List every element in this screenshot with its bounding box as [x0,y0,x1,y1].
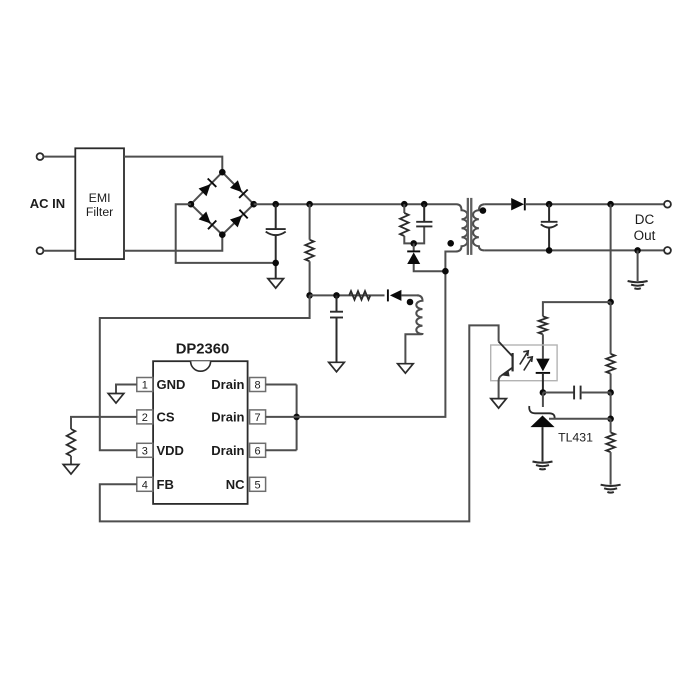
shunt regulator U3 TL431 [529,406,554,419]
diode D5 aux rectifier [390,290,402,301]
transformer secondary polarity dot [480,207,487,214]
wire drain to transformer [266,271,446,417]
node VDD filter cap junction [333,292,340,299]
resistor R1 startup [305,240,314,262]
node AC line input terminal (top) [37,153,44,160]
wire drain bus pin6 [266,449,297,451]
optocoupler phototransistor [511,353,513,371]
optocoupler light arrows [520,352,528,365]
svg-text:NC: NC [226,477,245,492]
svg-text:AC IN: AC IN [30,196,65,211]
node DC out ground junction [634,247,641,254]
wire divider mid [610,393,612,419]
svg-text:8: 8 [255,380,261,392]
capacitor C4 output (polarized) [548,204,550,222]
svg-text:CS: CS [157,409,175,424]
svg-text:VDD: VDD [157,443,184,458]
wire DC out ground stem [637,250,639,281]
diode D7 output rectifier [511,198,524,210]
wire secondary top to output diode [485,203,511,205]
transformer primary polarity dot [447,240,454,247]
node AC neutral input terminal (bottom) [37,247,44,254]
transformer core [467,198,469,255]
svg-text:EMI: EMI [89,191,111,205]
wire CS pin to sense resistor [71,417,137,429]
wire EMI output bottom to bridge AC node [124,235,222,251]
diode D6 snubber clamp [407,250,420,252]
pin 4 box [137,477,153,491]
svg-text:4: 4 [142,479,148,491]
svg-text:5: 5 [255,479,261,491]
wire drain bus pin8 [266,384,297,386]
svg-text:DP2360: DP2360 [176,342,229,358]
wire divider mid upper [610,374,612,393]
wire snubber R upper lead [403,204,405,213]
svg-text:FB: FB [157,477,174,492]
pin 8 box [250,378,266,392]
node snubber RC bottom junction [410,240,417,247]
svg-text:Filter: Filter [86,205,113,219]
svg-text:3: 3 [142,445,148,457]
capacitor C3 snubber [423,204,425,222]
node VDD supply junction [306,292,313,299]
transformer T1 secondary winding [473,204,485,250]
wire EMI output top to bridge AC node [124,157,222,173]
capacitor C2 VDD filter [336,295,338,311]
node drain / snubber junction [442,268,449,275]
resistor R7 current sense [67,429,76,456]
wire snubber R lower lead [404,226,424,243]
resistor R2 VDD series [349,291,370,300]
node bridge negative (left) junction [188,201,195,208]
wire LED cathode to cap [543,392,574,394]
bridge diode D1 (left to top) [199,184,211,196]
wire drain bus vertical [296,385,298,451]
aux winding polarity dot [407,299,414,306]
wire TL431 reference [549,418,611,420]
inductor L1 auxiliary winding [405,295,422,363]
node startup resistor top junction [306,201,313,208]
wire AC bottom input [44,250,76,252]
optocoupler LED [536,359,550,372]
svg-text:1: 1 [142,380,148,392]
bridge diode D3 (left to bottom) [199,212,211,224]
IC notch [191,361,211,371]
wire FB pin to optocoupler collector [100,325,499,521]
wire divider to ground [610,452,612,485]
svg-text:6: 6 [255,445,261,457]
bridge rectifier frame [191,172,254,235]
wire bridge negative return [176,204,276,263]
ground (secondary, DC out) [628,281,648,282]
wire VDD node to DP2360 VDD pin [100,295,310,450]
pin 7 box [250,410,266,424]
bridge diode D4 (bottom to right) [230,215,242,227]
optocoupler U2 package outline [491,345,557,381]
wire cap to divider [581,392,611,394]
ground (CS sense resistor) [63,465,79,475]
node bridge AC bottom junction [219,231,226,238]
node bridge positive (right) junction [250,201,257,208]
node output sense junction [607,201,614,208]
ground (VDD filter cap) [329,362,345,372]
svg-text:TL431: TL431 [558,430,593,444]
resistor R6 opto LED series [539,316,548,334]
wire LED resistor to LED [542,334,544,358]
wire sense resistor to ground [70,456,72,465]
wire output rail top [525,203,667,205]
ground (primary, bulk cap) [268,279,284,289]
wire startup resistor lower lead [309,261,311,295]
wire AC top input [44,156,76,158]
transformer T1 primary winding [445,204,467,271]
node feedback cap right junction [607,389,614,396]
svg-text:7: 7 [255,412,261,424]
svg-text:DC: DC [635,212,655,227]
node snubber resistor top junction [401,201,408,208]
wire output rail bottom [485,249,667,251]
node snubber capacitor top junction [421,201,428,208]
wire sense divider upper [610,204,612,302]
wire GND pin to ground [116,385,137,394]
node DC Out negative terminal [664,247,671,254]
ground (secondary, divider) [601,485,621,486]
node TL431 reference junction [607,416,614,423]
node bulk cap top junction [272,201,279,208]
svg-text:Drain: Drain [211,443,244,458]
node DC Out positive terminal [664,201,671,208]
node drain bus junction [293,414,300,421]
svg-text:Drain: Drain [211,409,244,424]
wire HV+ top rail (bridge to transformer) [254,203,457,205]
pin 5 box [250,477,266,491]
op IC U1 DP2360 body [153,361,248,504]
node bridge AC top junction [219,169,226,176]
node feedback cap left junction [540,389,547,396]
node output cap bottom junction [546,247,553,254]
wire opto feed to LED resistor [543,302,611,316]
pin 6 box [250,443,266,457]
resistor R4 divider upper [606,354,615,374]
wire aux diode to winding [401,294,419,296]
pin 1 box [137,378,153,392]
pin 3 box [137,443,153,457]
wire VDD node to aux diode [310,294,385,296]
wire divider mid lower [610,419,612,433]
wire divider to upper resistor [610,302,612,354]
ground (opto emitter) [491,399,507,409]
bridge diode D2 (top to right) [230,180,242,192]
ground (aux winding) [398,364,414,374]
ground (TL431 anode) [533,462,553,463]
svg-text:Drain: Drain [211,377,244,392]
resistor R5 divider lower [606,433,615,453]
node bulk cap bottom junction [272,260,279,267]
capacitor C1 bulk (polarized) [275,204,277,229]
node opto feed junction [607,299,614,306]
ground (DP2360 GND pin) [108,394,124,404]
wire LED cathode to TL431 [542,393,544,408]
capacitor C5 feedback [573,386,575,400]
wire startup resistor upper lead [309,204,311,240]
resistor R3 snubber [400,213,409,236]
svg-text:Out: Out [634,228,656,243]
pin 2 box [137,410,153,424]
EMI filter block [75,148,124,259]
node output cap top junction [546,201,553,208]
svg-text:2: 2 [142,412,148,424]
wire snubber junction to clamp diode [413,243,415,251]
wire snubber diode anode to drain node [414,264,446,271]
svg-text:GND: GND [157,377,186,392]
